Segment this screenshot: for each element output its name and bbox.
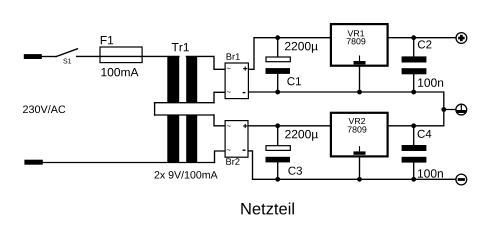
wire primary jumper band bottom [155, 114, 214, 116]
wire capacitor C3 leads [277, 126, 279, 180]
capacitor C3 plate negative [266, 157, 291, 163]
label C3 [288, 167, 302, 175]
transformer Tr1 core bar upper right [186, 56, 197, 103]
Br2 pin plus [243, 124, 247, 128]
label VR1 [347, 30, 364, 36]
wire primary jumper band left edge [154, 103, 156, 115]
terminal plus output [456, 33, 467, 44]
node top rail [248, 38, 455, 70]
capacitor C2 plate bottom [402, 68, 427, 74]
node dot C3 bottom [275, 177, 280, 182]
fuse F1 [100, 47, 142, 63]
node bottom rail [248, 151, 456, 179]
label C2 [418, 40, 432, 48]
Br1 pin tilde top [227, 67, 231, 70]
wire transformer top right to Br1 pin1 [186, 56, 225, 69]
wire Br2 lower left pin [215, 151, 226, 163]
transformer Tr1 core bar lower left [167, 115, 179, 163]
terminal input bottom [24, 160, 42, 165]
node dot C2 top [411, 35, 416, 40]
node dot C3 top [275, 123, 280, 128]
Br1 pin plus [243, 67, 247, 71]
capacitor C3 plate positive [266, 146, 290, 151]
wire capacitor C4 leads [413, 126, 415, 180]
terminal minus output [456, 174, 467, 185]
node dot VR2 ground [357, 177, 362, 182]
capacitor C2 plate top [402, 56, 427, 62]
terminal input top [24, 54, 42, 59]
wire VR2 ground lead [359, 157, 361, 179]
capacitor C1 plate negative [266, 68, 291, 74]
label 2200u C1 [285, 42, 318, 53]
Br2 pin minus [243, 150, 246, 151]
label Br2 [226, 158, 239, 164]
wire capacitor C1 leads [277, 38, 279, 92]
label 2x 9V/100mA [155, 171, 218, 179]
wire capacitor C2 leads [413, 38, 415, 92]
Br1 pin tilde bottom [227, 90, 231, 93]
node dot C1 top [275, 35, 280, 40]
regulator VR2 box [331, 113, 388, 157]
label 230V/AC [23, 105, 65, 113]
label S1 [63, 59, 71, 64]
Br1 pin minus [243, 92, 246, 93]
switch S1 blade [56, 49, 77, 57]
capacitor C4 plate bottom [402, 157, 427, 163]
node dot C4 top [411, 123, 416, 128]
node VR2 line [248, 125, 444, 127]
wire input bottom to transformer [43, 162, 215, 164]
op-amp regulator VR1 box [331, 24, 388, 66]
wire VR1 ground lead [359, 67, 361, 93]
label 2200u C3 [285, 130, 318, 141]
label Tr1 [172, 43, 189, 51]
label Br1 [227, 53, 240, 59]
transformer Tr1 core bar lower right [186, 115, 197, 163]
wire input top [42, 56, 56, 58]
label F1 [101, 36, 113, 44]
node dot C2 bottom [411, 90, 416, 95]
node dot C1 bottom [275, 90, 280, 95]
terminal ground output [455, 104, 468, 117]
label C1 [287, 77, 301, 85]
bridge rectifier Br2 [225, 121, 248, 158]
Br2 pin tilde bottom [227, 148, 231, 151]
capacitor C4 plate top [402, 145, 427, 151]
label 100mA fuse [101, 68, 138, 77]
Br2 pin tilde top [227, 124, 231, 127]
node dot ground branch [441, 107, 446, 112]
node dot VR1 ground [357, 90, 362, 95]
label title Netzteil [241, 202, 294, 214]
node mid ground rail [248, 92, 455, 126]
label VR2 [348, 118, 365, 124]
node dot C4 bottom [411, 177, 416, 182]
bridge rectifier Br1 [225, 63, 248, 99]
wire primary jumper band top [155, 102, 214, 104]
label VR2 7809 [348, 126, 367, 132]
wire Br1 lower left pin [214, 92, 225, 102]
label C4 [418, 130, 432, 138]
VR1 ground tab [359, 56, 361, 62]
label 100n C2 [418, 78, 443, 87]
wire Br2 upper left pin [214, 115, 225, 126]
capacitor C1 plate positive [266, 57, 290, 62]
label 100n C4 [418, 169, 443, 178]
transformer Tr1 core bar upper left [167, 56, 179, 103]
VR2 ground tab [359, 146, 361, 151]
wire switch to fuse to transformer [77, 55, 179, 57]
label VR1 7809 [347, 38, 366, 44]
